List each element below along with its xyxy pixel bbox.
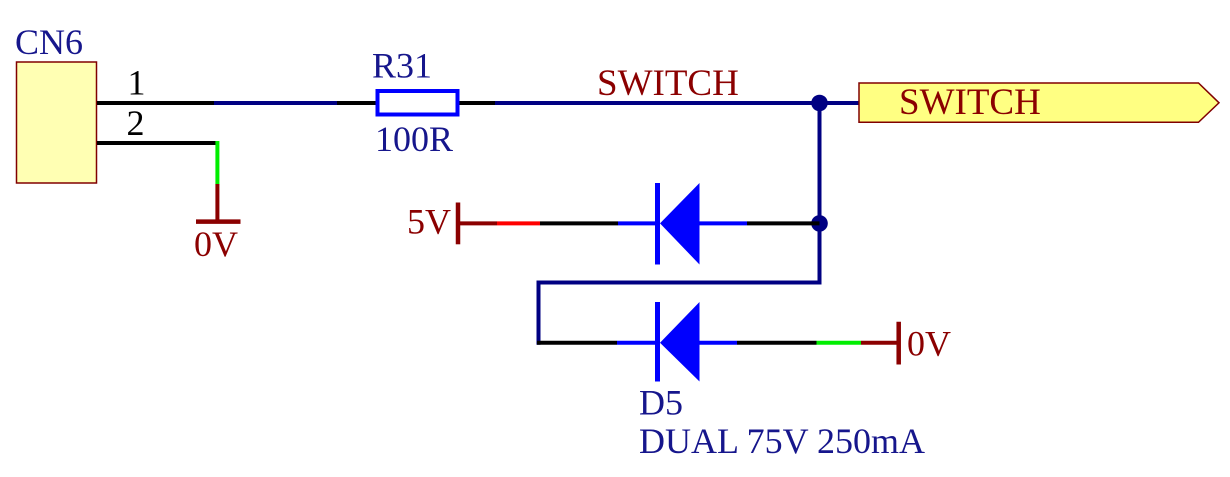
wire black resistor left lead — [337, 101, 376, 105]
svg-text:0V: 0V — [907, 324, 951, 364]
pin 1 of CN6 — [97, 101, 216, 105]
diode D5b cathode bar — [655, 302, 660, 382]
pin 2 of CN6 — [97, 141, 216, 145]
wire navy vertical jog down — [537, 281, 541, 345]
wire black lower diode left — [537, 341, 617, 345]
svg-text:SWITCH: SWITCH — [597, 63, 739, 104]
resistor R31 — [378, 91, 458, 115]
svg-text:1: 1 — [128, 63, 146, 103]
junction dot at switch node — [811, 95, 828, 112]
wire maroon to 0V — [861, 341, 897, 345]
diode D5a anode-side stub — [618, 221, 657, 225]
diode D5a cathode bar — [655, 183, 660, 265]
wire maroon vertical to ground — [215, 184, 219, 220]
diode D5b triangle — [660, 302, 700, 382]
wire black to diode D5a — [540, 221, 618, 225]
junction dot at diode node — [811, 215, 828, 232]
svg-text:0V: 0V — [194, 224, 238, 264]
diode D5b left stub — [617, 341, 657, 345]
wire navy pin1 to resistor — [214, 101, 339, 105]
svg-text:CN6: CN6 — [15, 22, 83, 62]
svg-text:D5: D5 — [639, 383, 683, 423]
power port 0V right bar — [896, 322, 901, 365]
wire black resistor right lead — [460, 101, 498, 105]
diode D5a triangle — [660, 183, 700, 265]
wire navy vertical from switch node — [818, 103, 822, 283]
svg-text:R31: R31 — [372, 46, 432, 86]
diode D5a right stub — [700, 221, 748, 225]
ground 0V bar — [196, 219, 241, 224]
wire navy horizontal jog — [537, 281, 822, 285]
wire green segment — [817, 341, 862, 345]
diode D5b right stub — [700, 341, 738, 345]
connector CN6 body — [17, 62, 97, 183]
wire maroon from 5V — [458, 221, 497, 225]
svg-text:100R: 100R — [375, 119, 453, 159]
svg-text:2: 2 — [127, 103, 145, 143]
svg-text:5V: 5V — [407, 202, 451, 242]
wire black diode D5a to node — [747, 221, 820, 225]
port SWITCH — [859, 83, 1219, 122]
wire navy resistor to port — [495, 101, 860, 105]
wire green vertical pin2 — [215, 141, 219, 184]
power port 5V bar — [456, 203, 461, 245]
svg-text:DUAL 75V 250mA: DUAL 75V 250mA — [639, 421, 925, 461]
wire red segment — [497, 221, 540, 225]
svg-text:SWITCH: SWITCH — [899, 82, 1041, 123]
wire black diode D5b to green — [737, 341, 817, 345]
